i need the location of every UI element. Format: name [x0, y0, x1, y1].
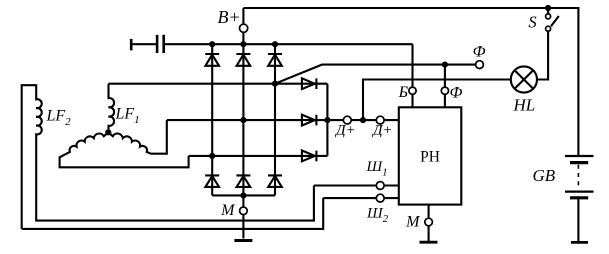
svg-text:LF2: LF2 [46, 108, 72, 129]
svg-text:Ф: Ф [473, 44, 486, 61]
svg-text:М: М [405, 214, 421, 231]
svg-text:Ш2: Ш2 [366, 206, 389, 226]
svg-text:S: S [528, 12, 536, 31]
svg-text:LF1: LF1 [115, 106, 140, 127]
svg-text:В+: В+ [217, 7, 240, 27]
svg-text:GB: GB [533, 166, 556, 185]
svg-text:РН: РН [420, 149, 440, 166]
svg-text:М: М [220, 202, 236, 219]
svg-text:Б: Б [398, 84, 409, 101]
svg-text:Ш1: Ш1 [366, 159, 388, 179]
svg-text:Д+: Д+ [371, 123, 393, 139]
svg-text:HL: HL [513, 96, 536, 115]
svg-text:Д+: Д+ [334, 123, 356, 139]
svg-text:Ф: Ф [450, 85, 463, 102]
